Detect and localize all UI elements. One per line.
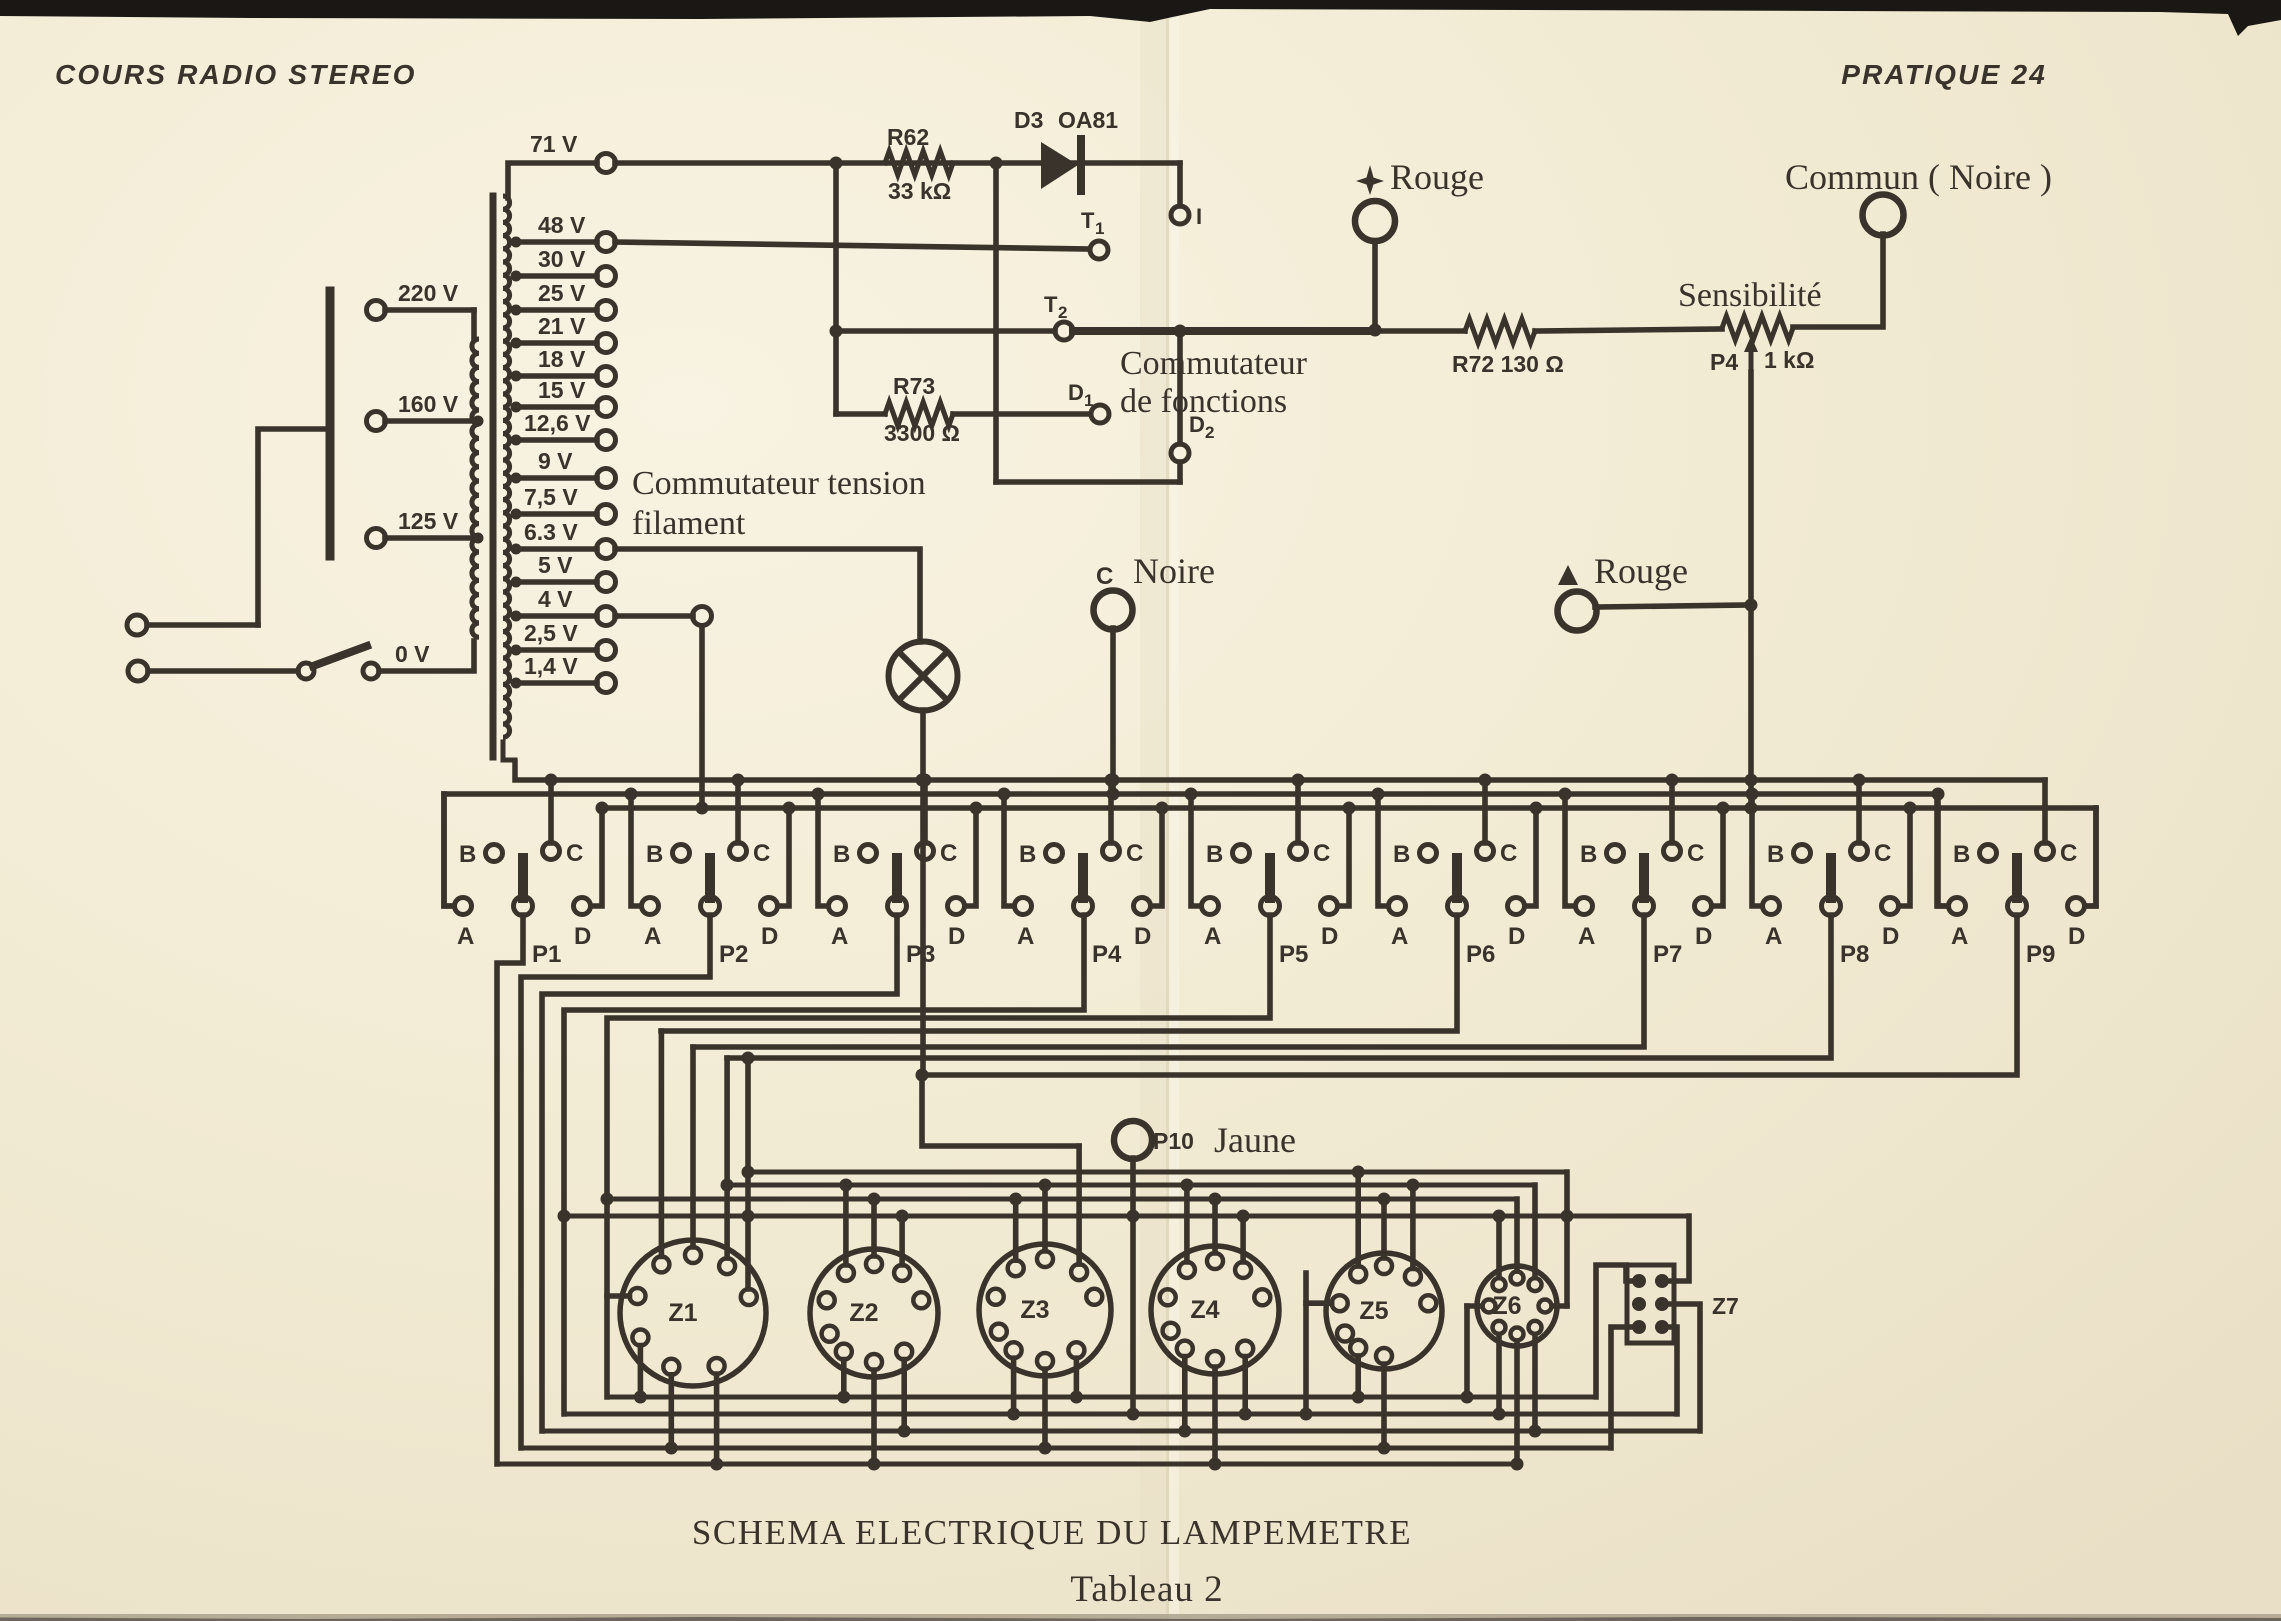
svg-text:R73: R73 bbox=[893, 373, 935, 399]
junction bbox=[919, 774, 932, 787]
svg-text:2: 2 bbox=[1205, 423, 1214, 442]
wire Z5 pin t riser bbox=[1378, 1193, 1391, 1259]
junction bbox=[998, 788, 1011, 801]
contact C of P9 bbox=[2037, 780, 2078, 867]
tube socket Z1 bbox=[620, 1240, 766, 1386]
svg-text:71 V: 71 V bbox=[530, 131, 578, 157]
tube socket Z2 bbox=[810, 1249, 938, 1377]
secondary tap 5 V bbox=[511, 552, 616, 592]
terminal C Noire bbox=[1094, 591, 1133, 795]
contact A of P6 bbox=[1378, 794, 1408, 950]
bus wire 3 bbox=[602, 805, 2096, 811]
wire Z3 pin bl dropper bbox=[1007, 1358, 1020, 1420]
svg-text:Z2: Z2 bbox=[849, 1299, 878, 1327]
pole of P9 bbox=[2008, 858, 2056, 968]
wire 4V feed bbox=[615, 607, 712, 809]
connector Z7 bbox=[1627, 1265, 1674, 1343]
contact B of P7 bbox=[1580, 841, 1624, 868]
wire Z4 pin bl dropper bbox=[1178, 1357, 1191, 1438]
svg-text:P3: P3 bbox=[906, 941, 935, 968]
svg-text:C: C bbox=[1313, 840, 1330, 867]
wire 48V to T1 bbox=[615, 242, 1089, 249]
wire Z3 pin tl riser bbox=[1009, 1193, 1022, 1261]
junction bbox=[625, 788, 638, 801]
wire Commun to P4 bbox=[1793, 234, 1883, 327]
svg-text:B: B bbox=[1580, 841, 1597, 868]
junction bbox=[1292, 774, 1305, 787]
wire Z4 pin tr riser bbox=[1237, 1210, 1250, 1262]
wire Z5 pin tr riser bbox=[1406, 1179, 1419, 1269]
junction bbox=[1745, 774, 1758, 787]
wire Z1 pin bl dropper bbox=[665, 1375, 678, 1455]
wire Z4 pin br dropper bbox=[1239, 1357, 1252, 1421]
contact A of P3 bbox=[818, 794, 848, 950]
secondary tap 1,4 V bbox=[511, 653, 616, 693]
label 0 V bbox=[395, 641, 430, 667]
svg-text:Sensibilité: Sensibilité bbox=[1678, 277, 1822, 314]
secondary tap 71V bbox=[508, 131, 616, 198]
pole of P7 bbox=[1635, 858, 1683, 968]
wire vertical left bbox=[833, 163, 839, 414]
wire Z1 pin tr riser bbox=[724, 1058, 730, 1258]
wire pole P5 fan bbox=[607, 915, 1270, 1397]
contact C of P5 bbox=[1290, 780, 1331, 867]
wire vertical center bbox=[993, 163, 999, 482]
wire 71V line bbox=[615, 160, 1180, 166]
wire 0V to primary bbox=[379, 641, 474, 671]
junction bbox=[1745, 802, 1758, 815]
wire Z5 pin tl riser bbox=[1352, 1166, 1365, 1267]
wire Z2 pin br dropper bbox=[898, 1360, 911, 1438]
svg-text:Commun ( Noire ): Commun ( Noire ) bbox=[1785, 157, 2052, 197]
wire Z1 left stub bbox=[607, 1293, 630, 1299]
svg-text:9 V: 9 V bbox=[538, 448, 573, 474]
svg-text:21 V: 21 V bbox=[538, 313, 586, 339]
junction bbox=[1530, 802, 1543, 815]
label 33 kohm bbox=[888, 178, 951, 204]
primary tap 220V bbox=[367, 280, 475, 339]
transformer core bbox=[490, 196, 497, 757]
svg-text:P6: P6 bbox=[1466, 941, 1495, 968]
primary tap 160V bbox=[367, 391, 484, 431]
wire lamp net drop bbox=[1076, 1146, 1082, 1264]
contact D of P6 bbox=[1508, 808, 1537, 950]
label Commutateur tension filament bbox=[632, 465, 926, 542]
contact D of P9 bbox=[2068, 808, 2097, 950]
svg-text:2,5 V: 2,5 V bbox=[524, 620, 578, 646]
contact B of P1 bbox=[459, 841, 503, 868]
caption SCHEMA ELECTRIQUE DU LAMPEMETRE bbox=[692, 1513, 1412, 1552]
svg-text:C: C bbox=[1126, 840, 1143, 867]
label Commutateur de fonctions bbox=[1120, 345, 1308, 420]
svg-text:P2: P2 bbox=[719, 941, 748, 968]
label Z7 bbox=[1712, 1293, 1739, 1319]
wire Z7 rb riser bbox=[1667, 1327, 1677, 1414]
socket bus L1185 bbox=[727, 1183, 1535, 1188]
svg-text:A: A bbox=[1204, 923, 1221, 950]
contact B of P6 bbox=[1393, 841, 1437, 868]
svg-text:D: D bbox=[1134, 923, 1151, 950]
terminal D1 bbox=[1068, 380, 1109, 423]
svg-text:C: C bbox=[753, 840, 770, 867]
secondary tap 9 V bbox=[511, 448, 616, 488]
wire pole P9 fan bbox=[922, 915, 2017, 1075]
junction bbox=[1561, 1210, 1574, 1223]
svg-text:Commutateur: Commutateur bbox=[1120, 345, 1308, 382]
svg-text:C: C bbox=[1096, 563, 1113, 590]
wire lamp net to Z3 bbox=[922, 1075, 1079, 1146]
junction bbox=[830, 325, 843, 338]
wire pole P4 fan bbox=[564, 915, 1084, 1414]
svg-text:4 V: 4 V bbox=[538, 586, 573, 612]
contact B of P8 bbox=[1767, 841, 1811, 868]
svg-text:A: A bbox=[1391, 923, 1408, 950]
wire P4 wiper down bbox=[1748, 372, 1754, 808]
svg-text:D: D bbox=[1695, 923, 1712, 950]
resistor R62 bbox=[885, 151, 953, 175]
contact A of P2 bbox=[631, 794, 661, 950]
svg-text:D: D bbox=[1321, 923, 1338, 950]
switch contact b bbox=[363, 663, 379, 679]
svg-text:Z4: Z4 bbox=[1190, 1296, 1219, 1324]
svg-text:5 V: 5 V bbox=[538, 552, 573, 578]
contact B of P3 bbox=[833, 841, 877, 868]
terminal A Rouge bbox=[1558, 592, 1749, 631]
svg-text:P4: P4 bbox=[1710, 349, 1738, 375]
bus2 left drop to A1 bbox=[444, 794, 454, 906]
tube socket Z6 bbox=[1477, 1266, 1557, 1346]
header title COURS RADIO STEREO bbox=[55, 59, 417, 90]
potentiometer P4 bbox=[1722, 316, 1793, 340]
lamp bbox=[889, 642, 958, 711]
wire Z1 ru riser bbox=[742, 1052, 755, 1290]
svg-text:A: A bbox=[1951, 923, 1968, 950]
contact A of P7 bbox=[1565, 794, 1595, 950]
label plus Rouge bbox=[1356, 157, 1484, 197]
wire Z6 right link bbox=[1564, 1172, 1570, 1306]
contact D of P1 bbox=[574, 808, 603, 950]
junction bbox=[721, 1179, 734, 1192]
wire Z7 rm riser bbox=[1667, 1304, 1700, 1431]
wire pole P8 fan bbox=[727, 915, 1831, 1058]
wire T2 line bbox=[836, 328, 1055, 334]
switch contact a bbox=[298, 663, 314, 679]
terminal T2 bbox=[1044, 292, 1073, 340]
bottom bus 5 bbox=[497, 1462, 1517, 1467]
svg-text:C: C bbox=[1687, 840, 1704, 867]
secondary tap 48 V bbox=[511, 212, 616, 252]
svg-text:R72 130 Ω: R72 130 Ω bbox=[1452, 351, 1564, 377]
svg-text:filament: filament bbox=[632, 505, 746, 542]
svg-text:P4: P4 bbox=[1092, 941, 1122, 968]
junction bbox=[1745, 599, 1758, 612]
svg-text:D: D bbox=[1508, 923, 1525, 950]
scan edge bottom bbox=[0, 1614, 2281, 1621]
junction bbox=[1559, 788, 1572, 801]
bus3 right drop to D9 bbox=[2085, 808, 2096, 906]
svg-text:C: C bbox=[566, 840, 583, 867]
svg-text:220 V: 220 V bbox=[398, 280, 459, 306]
contact D of P7 bbox=[1695, 808, 1724, 950]
wire Z1 pin ll dropper bbox=[634, 1346, 647, 1404]
secondary tap 12,6 V bbox=[511, 410, 616, 450]
wire pole P2 fan bbox=[521, 915, 710, 1448]
wire Z3 pin br dropper bbox=[1070, 1358, 1083, 1403]
wire bottom of commutator bbox=[996, 479, 1180, 485]
junction bbox=[601, 1193, 614, 1206]
junction bbox=[916, 1069, 929, 1082]
svg-text:Tableau 2: Tableau 2 bbox=[1070, 1569, 1223, 1610]
contact B of P4 bbox=[1019, 841, 1063, 868]
secondary tap 6.3 V bbox=[511, 519, 616, 559]
junction bbox=[1372, 788, 1385, 801]
header title PRATIQUE 24 bbox=[1841, 59, 2047, 90]
wire T2 to R72 bbox=[1371, 328, 1465, 334]
scan edge top bbox=[0, 0, 2281, 36]
svg-text:0 V: 0 V bbox=[395, 641, 430, 667]
wire Z6 pin tr riser bbox=[1532, 1185, 1538, 1278]
svg-text:P7: P7 bbox=[1653, 941, 1682, 968]
terminal D2 bbox=[1171, 331, 1214, 482]
svg-text:2: 2 bbox=[1058, 303, 1067, 322]
svg-text:Noire: Noire bbox=[1133, 551, 1215, 591]
wire Z5 pin br dropper bbox=[1378, 1364, 1391, 1455]
transformer secondary winding bbox=[503, 196, 510, 737]
svg-text:33 kΩ: 33 kΩ bbox=[888, 178, 951, 204]
svg-text:A: A bbox=[1017, 923, 1034, 950]
wire L1 riser bbox=[258, 429, 326, 625]
svg-text:48 V: 48 V bbox=[538, 212, 586, 238]
bottom bus 2 bbox=[564, 1412, 1677, 1417]
svg-text:15 V: 15 V bbox=[538, 377, 586, 403]
wire pole P7 fan bbox=[693, 915, 1644, 1047]
secondary tap 25 V bbox=[511, 280, 616, 320]
wire R72 to P4 bbox=[1535, 329, 1722, 331]
primary tap 125V bbox=[367, 508, 484, 548]
wire Z6 pin br dropper bbox=[1529, 1334, 1542, 1437]
svg-text:B: B bbox=[1393, 841, 1410, 868]
svg-text:SCHEMA ELECTRIQUE DU LAMPEMETR: SCHEMA ELECTRIQUE DU LAMPEMETRE bbox=[692, 1513, 1412, 1552]
resistor R73 bbox=[836, 402, 1090, 426]
svg-text:C: C bbox=[2060, 840, 2077, 867]
pole of P8 bbox=[1822, 858, 1870, 968]
label R73 bbox=[893, 373, 935, 399]
pole of P3 bbox=[888, 858, 936, 968]
svg-text:1,4 V: 1,4 V bbox=[524, 653, 578, 679]
junction bbox=[1156, 802, 1169, 815]
svg-text:30 V: 30 V bbox=[538, 246, 586, 272]
bottom bus 1 bbox=[607, 1395, 1596, 1400]
svg-text:Z5: Z5 bbox=[1359, 1297, 1388, 1325]
pole of P5 bbox=[1261, 858, 1309, 968]
secondary tap 18 V bbox=[511, 346, 616, 386]
bus2 right drop to A9 bbox=[1937, 794, 1947, 906]
svg-text:A: A bbox=[457, 923, 474, 950]
secondary tap 7,5 V bbox=[511, 484, 616, 524]
contact C of P4 bbox=[1103, 780, 1144, 867]
pole of P4 bbox=[1074, 858, 1123, 968]
svg-text:D: D bbox=[574, 923, 591, 950]
svg-text:P10: P10 bbox=[1153, 1128, 1194, 1154]
wire Z2 pin t riser bbox=[868, 1193, 881, 1257]
contact C of P7 bbox=[1664, 780, 1705, 867]
pole of P6 bbox=[1448, 858, 1496, 968]
pole of P1 bbox=[514, 858, 562, 968]
svg-text:125 V: 125 V bbox=[398, 508, 459, 534]
junction bbox=[1932, 788, 1945, 801]
tube socket Z4 bbox=[1151, 1246, 1279, 1374]
svg-text:B: B bbox=[833, 841, 850, 868]
label C Noire bbox=[1096, 551, 1215, 591]
junction bbox=[1666, 774, 1679, 787]
contact D of P3 bbox=[948, 808, 977, 950]
svg-text:Z1: Z1 bbox=[668, 1299, 697, 1327]
wire pole P6 fan bbox=[661, 915, 1457, 1031]
contact A of P9 bbox=[1938, 794, 1968, 950]
junction bbox=[1717, 802, 1730, 815]
contact A of P5 bbox=[1191, 794, 1221, 950]
svg-text:Z3: Z3 bbox=[1020, 1296, 1049, 1324]
wire Z3 pin bc dropper bbox=[1039, 1369, 1052, 1455]
svg-text:D: D bbox=[1882, 923, 1899, 950]
svg-text:A: A bbox=[1765, 923, 1782, 950]
terminal plus Rouge bbox=[1355, 201, 1395, 337]
bus wire 2 bbox=[444, 791, 1937, 797]
junction bbox=[1746, 788, 1759, 801]
label D3 OA81 bbox=[1014, 107, 1118, 133]
svg-text:P5: P5 bbox=[1279, 941, 1308, 968]
wire Z6 pin l link bbox=[1461, 1306, 1483, 1404]
label A Rouge bbox=[1558, 551, 1688, 591]
wire Z6 pin tl riser bbox=[1493, 1210, 1506, 1278]
junction bbox=[742, 1210, 755, 1223]
wire 6.3V filament line bbox=[615, 549, 920, 642]
svg-text:12,6 V: 12,6 V bbox=[524, 410, 591, 436]
secondary tap 15 V bbox=[511, 377, 616, 417]
socket bus L1216 bbox=[564, 1214, 1689, 1219]
wire Z6 pin bl dropper bbox=[1493, 1334, 1506, 1420]
contact A of P8 bbox=[1752, 794, 1782, 950]
svg-text:I: I bbox=[1196, 204, 1202, 229]
junction bbox=[1185, 788, 1198, 801]
socket bus L1199 bbox=[607, 1197, 1517, 1202]
svg-text:D3: D3 bbox=[1014, 107, 1043, 133]
svg-text:6.3 V: 6.3 V bbox=[524, 519, 578, 545]
wire Z2 pin tr riser bbox=[896, 1210, 909, 1265]
label R72 130 bbox=[1452, 351, 1564, 377]
svg-text:C: C bbox=[1874, 840, 1891, 867]
secondary tap 21 V bbox=[511, 313, 616, 353]
svg-text:B: B bbox=[1767, 841, 1784, 868]
resistor R72 bbox=[1465, 319, 1535, 343]
junction bbox=[1107, 788, 1120, 801]
svg-text:3300 Ω: 3300 Ω bbox=[884, 420, 960, 446]
transformer bottom lead bbox=[503, 742, 515, 780]
label P10 Jaune bbox=[1153, 1120, 1296, 1160]
contact A of P1 bbox=[444, 794, 474, 950]
junction bbox=[1904, 802, 1917, 815]
junction bbox=[696, 802, 709, 815]
junction bbox=[1479, 774, 1492, 787]
junction bbox=[830, 157, 843, 170]
svg-text:PRATIQUE 24: PRATIQUE 24 bbox=[1841, 59, 2047, 90]
terminal T1 bbox=[1081, 208, 1108, 259]
contact B of P9 bbox=[1953, 841, 1997, 868]
contact C of P6 bbox=[1477, 780, 1518, 867]
svg-text:Jaune: Jaune bbox=[1214, 1120, 1296, 1160]
junction bbox=[1105, 774, 1118, 787]
svg-text:18 V: 18 V bbox=[538, 346, 586, 372]
contact D of P5 bbox=[1321, 808, 1350, 950]
contact C of P3 bbox=[917, 780, 958, 867]
svg-text:A: A bbox=[1578, 923, 1595, 950]
junction bbox=[1174, 325, 1187, 338]
wire Z6 pin b dropper bbox=[1511, 1341, 1524, 1471]
svg-text:B: B bbox=[1953, 841, 1970, 868]
tube socket Z3 bbox=[979, 1244, 1111, 1376]
svg-text:1: 1 bbox=[1095, 219, 1104, 238]
svg-text:160 V: 160 V bbox=[398, 391, 459, 417]
bottom bus 3 bbox=[542, 1429, 1700, 1434]
bus wire 1 bbox=[515, 762, 2045, 780]
junction bbox=[783, 802, 796, 815]
svg-text:C: C bbox=[1500, 840, 1517, 867]
wire pole P3 fan bbox=[542, 915, 897, 1431]
wire pole P1 fan bbox=[497, 915, 523, 1464]
junction bbox=[545, 774, 558, 787]
svg-text:R62: R62 bbox=[887, 124, 929, 150]
junction bbox=[916, 774, 929, 787]
wire Z1 pin bc dropper bbox=[710, 1374, 723, 1471]
wire Z2 pin tl riser bbox=[839, 1179, 852, 1265]
label R62 bbox=[887, 124, 929, 150]
svg-text:A: A bbox=[644, 923, 661, 950]
socket bus L1172 bbox=[748, 1170, 1567, 1175]
svg-text:B: B bbox=[1019, 841, 1036, 868]
svg-text:B: B bbox=[459, 841, 476, 868]
contact C of P1 bbox=[543, 780, 584, 867]
contact B of P2 bbox=[646, 841, 690, 868]
terminal Commun Noire bbox=[1863, 195, 1904, 236]
svg-text:1: 1 bbox=[1084, 391, 1093, 410]
svg-text:D: D bbox=[1068, 380, 1084, 405]
wire Z5 left link bbox=[1300, 1273, 1332, 1421]
secondary tap 30 V bbox=[511, 246, 616, 286]
svg-text:B: B bbox=[646, 841, 663, 868]
junction bbox=[1127, 1408, 1140, 1421]
svg-text:T: T bbox=[1044, 292, 1058, 317]
svg-text:D: D bbox=[2068, 923, 2085, 950]
svg-text:Commutateur tension: Commutateur tension bbox=[632, 465, 926, 502]
terminal P10 Jaune bbox=[1114, 1121, 1152, 1414]
svg-text:COURS RADIO STEREO: COURS RADIO STEREO bbox=[55, 59, 417, 90]
svg-text:Rouge: Rouge bbox=[1594, 551, 1688, 591]
junction bbox=[596, 802, 609, 815]
svg-text:P1: P1 bbox=[532, 941, 561, 968]
pole of P2 bbox=[701, 858, 749, 968]
junction bbox=[1853, 774, 1866, 787]
svg-text:D: D bbox=[948, 923, 965, 950]
secondary tap 2,5 V bbox=[511, 620, 616, 660]
tube socket Z5 bbox=[1326, 1253, 1442, 1369]
mains pin L2 bbox=[128, 661, 298, 681]
bottom bus 4 bbox=[521, 1446, 1611, 1451]
contact A of P4 bbox=[1004, 794, 1034, 950]
secondary tap 4 V bbox=[511, 586, 616, 626]
wire Z2 pin bc dropper bbox=[868, 1370, 881, 1471]
junction bbox=[742, 1166, 755, 1179]
junction bbox=[970, 802, 983, 815]
